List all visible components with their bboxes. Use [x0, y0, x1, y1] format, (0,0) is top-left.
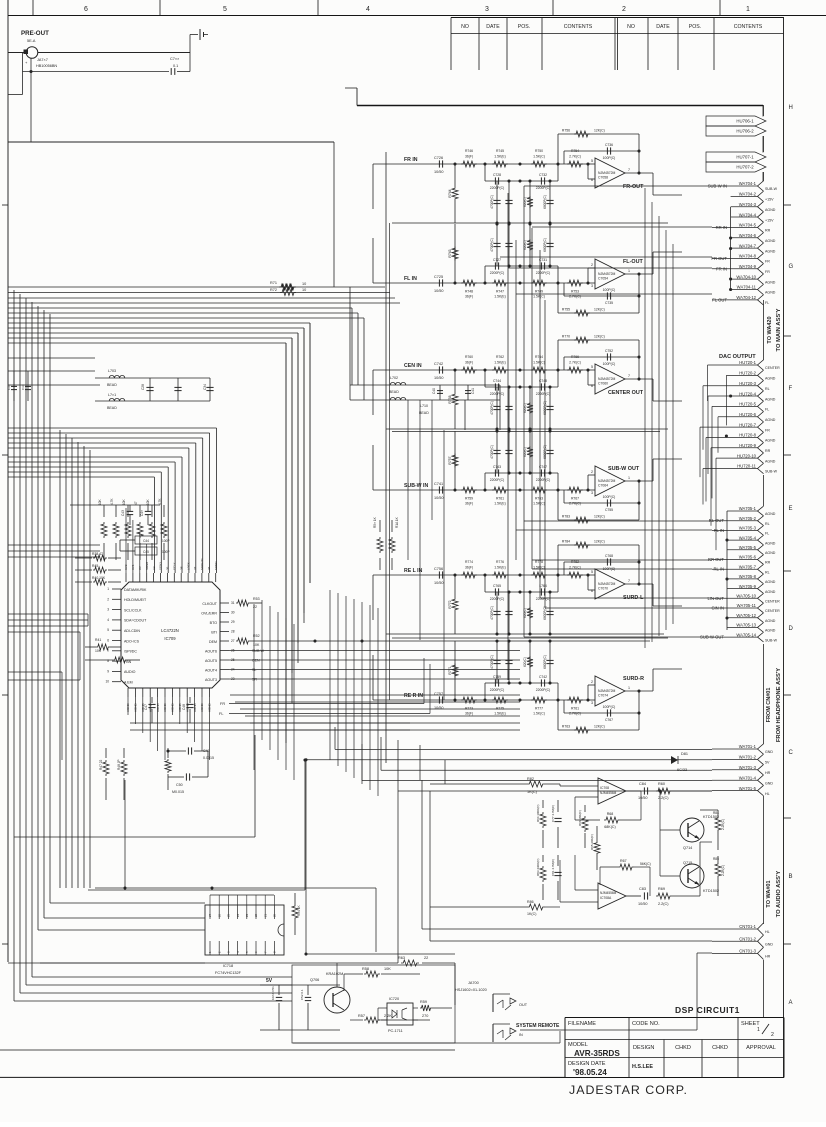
svg-text:C742: C742: [434, 362, 443, 366]
svg-text:FL: FL: [765, 408, 769, 412]
svg-text:36(F): 36(F): [465, 502, 473, 506]
svg-text:R767: R767: [571, 497, 579, 501]
svg-text:1K(C): 1K(C): [527, 790, 538, 794]
svg-text:WA701-2: WA701-2: [739, 755, 757, 760]
svg-text:R750: R750: [535, 149, 543, 153]
svg-text:1K(C): 1K(C): [527, 912, 536, 916]
svg-text:CENTER: CENTER: [765, 600, 780, 604]
svg-text:SDA=CDOUT: SDA=CDOUT: [124, 619, 147, 623]
svg-text:HU720-1: HU720-1: [739, 360, 756, 365]
svg-text:NJM4572M: NJM4572M: [598, 272, 616, 276]
svg-text:6: 6: [107, 639, 109, 643]
svg-text:JADESTAR CORP.: JADESTAR CORP.: [569, 1083, 688, 1097]
svg-text:10/50: 10/50: [434, 706, 444, 710]
svg-text:10/50: 10/50: [434, 581, 444, 585]
svg-text:2200P(C): 2200P(C): [536, 271, 551, 275]
svg-text:HU720-5: HU720-5: [739, 402, 756, 407]
svg-text:DESIGN: DESIGN: [633, 1045, 654, 1051]
svg-text:1.5K(E): 1.5K(E): [494, 566, 506, 570]
svg-text:IC708: IC708: [600, 786, 609, 790]
svg-text:AGND: AGND: [134, 702, 138, 712]
svg-text:36(F): 36(F): [465, 295, 473, 299]
svg-text:1.5K(E): 1.5K(E): [494, 155, 506, 159]
svg-text:C767: C767: [605, 718, 613, 722]
svg-text:DEM: DEM: [209, 640, 217, 644]
svg-text:SDOUT1: SDOUT1: [200, 558, 204, 570]
svg-text:10/50: 10/50: [434, 376, 444, 380]
svg-text:23: 23: [245, 913, 249, 917]
svg-text:R764: R764: [535, 355, 543, 359]
svg-text:CHKD: CHKD: [712, 1045, 728, 1051]
svg-text:C45: C45: [143, 550, 149, 554]
svg-text:4700P(C): 4700P(C): [490, 655, 494, 669]
svg-text:AGND: AGND: [765, 208, 776, 212]
svg-text:DAC OUTPUT: DAC OUTPUT: [719, 354, 756, 360]
svg-text:AGND: AGND: [171, 702, 175, 712]
svg-text:HU720-4: HU720-4: [739, 391, 756, 396]
svg-text:IC708A: IC708A: [600, 896, 612, 900]
svg-text:C: C: [789, 750, 794, 756]
svg-text:AGND: AGND: [163, 702, 167, 712]
svg-text:C7074: C7074: [598, 694, 608, 698]
svg-text:NJM4572M: NJM4572M: [598, 689, 616, 693]
svg-text:37: 37: [193, 566, 197, 570]
svg-text:2.2K: 2.2K: [384, 1014, 392, 1018]
svg-text:R749: R749: [535, 290, 543, 294]
svg-text:LRCK: LRCK: [186, 562, 190, 570]
svg-text:12K(C): 12K(C): [594, 308, 605, 312]
svg-text:R761: R761: [496, 497, 504, 501]
svg-text:WA704-4: WA704-4: [739, 212, 757, 217]
svg-text:7: 7: [107, 649, 109, 653]
svg-text:D81: D81: [681, 752, 688, 756]
svg-text:WA701-1: WA701-1: [739, 744, 757, 749]
svg-text:RR: RR: [765, 229, 771, 233]
svg-text:OVL/ERR: OVL/ERR: [201, 611, 217, 615]
svg-text:100P(C): 100P(C): [603, 156, 616, 160]
svg-text:AGND: AGND: [765, 239, 776, 243]
svg-text:CN701-3: CN701-3: [739, 949, 756, 954]
svg-text:WA704-12: WA704-12: [736, 295, 756, 300]
svg-text:POS.: POS.: [689, 24, 701, 30]
svg-text:1.5K(C): 1.5K(C): [533, 502, 545, 506]
svg-text:R776: R776: [496, 560, 504, 564]
svg-text:2: 2: [591, 470, 593, 474]
svg-text:620(C): 620(C): [523, 403, 527, 413]
svg-text:FBN: FBN: [124, 660, 132, 664]
svg-text:NO: NO: [461, 24, 469, 30]
svg-text:C757: C757: [434, 692, 443, 696]
svg-text:AGND: AGND: [126, 702, 130, 712]
svg-text:1.5K(C): 1.5K(C): [533, 361, 545, 365]
svg-text:HL: HL: [765, 792, 770, 796]
svg-text:HU720-8: HU720-8: [739, 433, 756, 438]
svg-text:RL: RL: [765, 522, 770, 526]
svg-text:4700P(C): 4700P(C): [490, 238, 494, 252]
svg-text:2200P(C): 2200P(C): [490, 271, 505, 275]
svg-text:2: 2: [591, 263, 593, 267]
svg-text:RE R IN: RE R IN: [404, 693, 423, 699]
svg-text:AOUT3: AOUT3: [205, 678, 217, 682]
svg-text:4700P(C): 4700P(C): [490, 445, 494, 459]
svg-text:C40: C40: [432, 388, 436, 394]
svg-text:B: B: [789, 874, 793, 880]
svg-text:HR: HR: [765, 955, 771, 959]
svg-text:C756: C756: [434, 567, 443, 571]
svg-text:C7058: C7058: [598, 176, 608, 180]
svg-text:3: 3: [107, 608, 109, 612]
svg-text:R83 430K(C): R83 430K(C): [536, 858, 540, 876]
svg-text:100P(C): 100P(C): [603, 705, 616, 709]
svg-text:WA705-5: WA705-5: [739, 545, 757, 550]
svg-text:FR: FR: [765, 428, 770, 432]
svg-text:DATE: DATE: [486, 24, 500, 30]
svg-text:4700P(C): 4700P(C): [490, 401, 494, 415]
svg-text:R67: R67: [620, 859, 627, 863]
svg-text:KRA102M: KRA102M: [326, 972, 343, 976]
svg-text:C52 0.1: C52 0.1: [300, 989, 304, 1000]
svg-text:2200P(C): 2200P(C): [536, 688, 551, 692]
svg-text:R41: R41: [95, 638, 101, 642]
svg-text:1.5K(C): 1.5K(C): [533, 295, 545, 299]
svg-text:6: 6: [84, 6, 88, 13]
svg-text:CODE NO.: CODE NO.: [632, 1021, 660, 1027]
svg-text:270: 270: [422, 1014, 428, 1018]
svg-text:0.0015: 0.0015: [203, 756, 214, 760]
svg-text:R53: R53: [253, 597, 260, 601]
svg-text:E: E: [789, 506, 793, 512]
svg-text:FROM HEADPHONE ASS'Y: FROM HEADPHONE ASS'Y: [776, 668, 782, 742]
svg-text:2: 2: [622, 6, 626, 13]
svg-text:FR OUT: FR OUT: [711, 256, 727, 261]
svg-text:FC74VHC132F: FC74VHC132F: [215, 971, 242, 975]
svg-text:C84: C84: [639, 782, 646, 786]
svg-text:C41: C41: [471, 388, 475, 394]
svg-text:ADO-/CS: ADO-/CS: [124, 639, 140, 643]
svg-text:2.7K(C): 2.7K(C): [569, 295, 581, 299]
svg-text:2: 2: [771, 1032, 774, 1038]
svg-text:CONTENTS: CONTENTS: [564, 24, 593, 30]
svg-text:SUB-W OUT: SUB-W OUT: [608, 466, 640, 472]
svg-text:C49: C49: [203, 749, 210, 753]
svg-text:20: 20: [273, 913, 277, 917]
svg-text:28: 28: [231, 630, 235, 634]
svg-text:JA700: JA700: [468, 981, 479, 985]
svg-text:L710: L710: [420, 404, 428, 408]
svg-text:C725: C725: [434, 275, 443, 279]
svg-text:R5× 1K: R5× 1K: [373, 516, 377, 528]
svg-text:27: 27: [208, 913, 212, 917]
svg-text:A: A: [789, 1000, 793, 1006]
svg-text:HU720-11: HU720-11: [737, 464, 756, 469]
svg-text:CHKD: CHKD: [675, 1045, 691, 1051]
svg-text:R761: R761: [571, 707, 579, 711]
svg-text:AOUT6: AOUT6: [205, 649, 217, 653]
svg-text:R778: R778: [535, 560, 543, 564]
svg-text:C7054: C7054: [598, 277, 608, 281]
svg-text:SCLK: SCLK: [173, 562, 177, 570]
svg-text:C7××: C7××: [170, 57, 179, 61]
svg-text:27: 27: [231, 639, 235, 643]
svg-text:FL OUT: FL OUT: [712, 297, 727, 302]
svg-text:WA704-1: WA704-1: [739, 181, 757, 186]
svg-text:C50: C50: [176, 783, 183, 787]
svg-text:H.S.LEE: H.S.LEE: [632, 1064, 653, 1070]
svg-text:WA705-6: WA705-6: [739, 555, 757, 560]
svg-text:HU720-9: HU720-9: [739, 443, 756, 448]
svg-text:24: 24: [236, 913, 240, 917]
svg-text:IC720: IC720: [389, 997, 399, 1001]
svg-text:APPROVAL: APPROVAL: [746, 1045, 776, 1051]
svg-text:5: 5: [591, 365, 593, 369]
svg-text:R784: R784: [562, 540, 570, 544]
svg-text:RL: RL: [765, 570, 770, 574]
svg-text:R65 20K(C): R65 20K(C): [590, 834, 594, 850]
svg-text:R60: R60: [658, 782, 665, 786]
svg-text:620(C): 620(C): [523, 608, 527, 618]
svg-text:2200P(C): 2200P(C): [536, 186, 551, 190]
svg-text:WA701-5: WA701-5: [739, 786, 757, 791]
svg-text:10/50: 10/50: [434, 289, 444, 293]
svg-text:KTD1502: KTD1502: [703, 889, 719, 893]
svg-text:H: H: [789, 105, 793, 111]
svg-text:POS.: POS.: [518, 24, 530, 30]
svg-text:R770: R770: [562, 335, 570, 339]
svg-text:2: 2: [591, 680, 593, 684]
svg-text:NJM4556M: NJM4556M: [600, 891, 617, 895]
svg-text:R54 1K: R54 1K: [297, 904, 301, 916]
svg-text:7: 7: [628, 579, 630, 583]
svg-text:620(C): 620(C): [523, 657, 527, 667]
svg-text:R58: R58: [362, 967, 369, 971]
svg-text:6800P(C): 6800P(C): [543, 238, 547, 252]
svg-text:WA705-4: WA705-4: [739, 535, 757, 540]
svg-text:L703: L703: [108, 369, 116, 373]
svg-text:12K(C): 12K(C): [594, 725, 605, 729]
svg-text:36(F): 36(F): [465, 566, 473, 570]
svg-text:68K(C): 68K(C): [604, 825, 615, 829]
svg-text:2.7K(C): 2.7K(C): [569, 155, 581, 159]
svg-text:C83: C83: [639, 887, 646, 891]
svg-text:3: 3: [591, 284, 593, 288]
svg-text:10/50: 10/50: [638, 902, 648, 906]
svg-text:C728: C728: [493, 173, 501, 177]
svg-text:AGND: AGND: [765, 629, 776, 633]
svg-text:F: F: [789, 386, 793, 392]
svg-text:25: 25: [227, 913, 231, 917]
svg-text:SCL/CCLK: SCL/CCLK: [124, 608, 142, 612]
svg-text:100P: 100P: [162, 539, 169, 543]
svg-text:C7060: C7060: [598, 382, 608, 386]
svg-text:3: 3: [591, 701, 593, 705]
svg-text:FR IN: FR IN: [404, 157, 418, 163]
svg-text:C4×: C4×: [140, 510, 144, 516]
svg-text:AGND: AGND: [200, 702, 204, 712]
svg-text:100P: 100P: [162, 550, 169, 554]
svg-text:R1A 1K: R1A 1K: [395, 516, 399, 528]
svg-text:R762: R762: [496, 355, 504, 359]
svg-text:RR: RR: [765, 561, 771, 565]
svg-text:R758: R758: [448, 395, 452, 403]
svg-text:56K(C): 56K(C): [640, 862, 651, 866]
svg-text:C741: C741: [434, 482, 443, 486]
svg-text:R86: R86: [527, 900, 534, 904]
svg-text:CN701-2: CN701-2: [739, 936, 756, 941]
svg-text:2: 2: [107, 597, 109, 601]
svg-text:HU720-2: HU720-2: [739, 371, 756, 376]
svg-text:WA705-3: WA705-3: [739, 526, 757, 531]
svg-text:AGND: AGND: [208, 702, 212, 712]
svg-text:+15V: +15V: [765, 218, 774, 222]
svg-text:AGND: AGND: [765, 439, 776, 443]
svg-text:1.5K(E): 1.5K(E): [494, 361, 506, 365]
svg-text:'98.05.24: '98.05.24: [573, 1068, 607, 1077]
svg-text:R59: R59: [420, 1000, 427, 1004]
svg-text:SDMD: SDMD: [214, 561, 218, 570]
svg-text:36: 36: [207, 566, 211, 570]
svg-text:OUT: OUT: [519, 1003, 528, 1007]
svg-text:R763: R763: [535, 497, 543, 501]
svg-text:4.7K: 4.7K: [110, 498, 114, 505]
svg-text:10K: 10K: [146, 498, 150, 505]
svg-text:4: 4: [366, 6, 370, 13]
svg-text:100P(C): 100P(C): [603, 495, 616, 499]
svg-text:3B: 3B: [179, 566, 183, 570]
svg-text:10K: 10K: [98, 498, 102, 505]
svg-text:3: 3: [591, 491, 593, 495]
svg-text:R773: R773: [465, 707, 473, 711]
svg-text:47: 47: [134, 501, 138, 505]
svg-text:CLKOUT: CLKOUT: [202, 602, 217, 606]
svg-text:10K: 10K: [122, 498, 126, 505]
svg-text:A2: A2: [152, 566, 156, 570]
svg-text:R68: R68: [607, 812, 614, 816]
svg-text:10K: 10K: [384, 967, 391, 971]
svg-text:BTI: BTI: [211, 630, 217, 634]
svg-text:HU720-6: HU720-6: [739, 412, 756, 417]
svg-text:5: 5: [591, 570, 593, 574]
svg-text:TO WA#01: TO WA#01: [766, 880, 772, 907]
svg-text:C48: C48: [182, 704, 186, 710]
svg-text:10: 10: [105, 680, 109, 684]
svg-text:C744: C744: [493, 379, 501, 383]
svg-text:5: 5: [107, 628, 109, 632]
svg-text:12K(C): 12K(C): [594, 129, 605, 133]
svg-text:PC-1711: PC-1711: [388, 1029, 403, 1033]
svg-text:2.2(C): 2.2(C): [658, 902, 669, 906]
svg-text:1: 1: [628, 476, 630, 480]
svg-text:L7×1: L7×1: [108, 393, 116, 397]
svg-text:IC709: IC709: [164, 636, 176, 641]
svg-text:4: 4: [107, 618, 109, 622]
svg-text:WA704-8: WA704-8: [739, 254, 757, 259]
svg-text:R753: R753: [571, 290, 579, 294]
svg-text:R771: R771: [448, 666, 452, 674]
svg-text:L764: L764: [539, 584, 547, 588]
svg-text:GND: GND: [765, 942, 773, 946]
svg-text:1.5K(C): 1.5K(C): [533, 155, 545, 159]
svg-text:AGND: AGND: [765, 619, 776, 623]
svg-text:R744: R744: [448, 189, 452, 197]
svg-text:2.7K(C): 2.7K(C): [569, 502, 581, 506]
svg-text:HOLD/MUE/T: HOLD/MUE/T: [124, 598, 147, 602]
svg-text:HU706-2: HU706-2: [736, 129, 754, 134]
svg-text:2200P(C): 2200P(C): [536, 597, 551, 601]
svg-text:DATAMIK/RIK: DATAMIK/RIK: [124, 588, 147, 592]
svg-text:29: 29: [231, 620, 235, 624]
svg-text:R755: R755: [562, 308, 570, 312]
svg-text:C736: C736: [605, 143, 613, 147]
svg-text:WA704-10: WA704-10: [736, 274, 756, 279]
svg-text:AUDIO: AUDIO: [124, 670, 136, 674]
svg-text:1.5K(E): 1.5K(E): [494, 712, 506, 716]
svg-text:R763: R763: [562, 725, 570, 729]
svg-text:C28: C28: [141, 384, 145, 390]
svg-text:21: 21: [263, 913, 267, 917]
svg-text:FR: FR: [765, 270, 770, 274]
svg-text:/SPI/DC: /SPI/DC: [124, 650, 137, 654]
svg-text:WA704-6: WA704-6: [739, 233, 757, 238]
svg-text:BEAD: BEAD: [419, 411, 429, 415]
svg-text:R45: R45: [92, 564, 98, 568]
svg-text:WA705-11: WA705-11: [737, 603, 757, 608]
svg-text:4700P(C): 4700P(C): [490, 606, 494, 620]
svg-text:FR IN: FR IN: [716, 266, 727, 271]
svg-text:C765: C765: [493, 584, 501, 588]
svg-text:R759: R759: [465, 497, 473, 501]
svg-text:CENTER: CENTER: [765, 366, 780, 370]
svg-text:CENTER OUT: CENTER OUT: [608, 390, 644, 396]
svg-text:DSP CIRCUIT1: DSP CIRCUIT1: [675, 1005, 740, 1015]
svg-text:HU706-1: HU706-1: [736, 119, 754, 124]
svg-text:NJM4572M: NJM4572M: [598, 171, 616, 175]
svg-text:NO: NO: [627, 24, 635, 30]
svg-text:Q706: Q706: [310, 978, 319, 982]
svg-text:DESIGN DATE: DESIGN DATE: [568, 1061, 606, 1067]
svg-text:WA701-3: WA701-3: [739, 765, 757, 770]
svg-text:7: 7: [628, 374, 630, 378]
svg-text:FL: FL: [219, 712, 223, 716]
svg-text:HU720-3: HU720-3: [739, 381, 756, 386]
svg-text:36(F): 36(F): [465, 712, 473, 716]
svg-text:MODEL: MODEL: [568, 1042, 588, 1048]
svg-text:SUB-W: SUB-W: [765, 187, 778, 191]
svg-text:5: 5: [591, 159, 593, 163]
svg-text:R57: R57: [358, 1014, 365, 1018]
svg-text:2.7K(C): 2.7K(C): [569, 361, 581, 365]
svg-text:R64 100K(C): R64 100K(C): [536, 804, 540, 822]
svg-text:C43: C43: [121, 510, 125, 516]
svg-text:A EM: A EM: [124, 681, 133, 685]
svg-text:10/50: 10/50: [434, 496, 444, 500]
svg-text:2200P(C): 2200P(C): [536, 392, 551, 396]
svg-text:2.2K(C): 2.2K(C): [721, 819, 725, 830]
svg-text:HU720-10: HU720-10: [737, 453, 757, 458]
svg-text:AGND: AGND: [765, 541, 776, 545]
svg-text:R756: R756: [562, 129, 570, 133]
svg-text:AOUT5: AOUT5: [205, 659, 217, 663]
svg-text:C81 4.7M(C): C81 4.7M(C): [551, 859, 555, 876]
svg-text:CEN: CEN: [252, 659, 260, 663]
svg-text:C44: C44: [143, 539, 149, 543]
svg-text:C7070: C7070: [598, 587, 608, 591]
svg-text:AGND: AGND: [765, 512, 776, 516]
svg-text:12K(C): 12K(C): [594, 515, 605, 519]
svg-text:C742: C742: [539, 675, 547, 679]
svg-text:CENTER: CENTER: [765, 609, 780, 613]
svg-text:1: 1: [107, 587, 109, 591]
svg-text:G: G: [789, 264, 794, 270]
